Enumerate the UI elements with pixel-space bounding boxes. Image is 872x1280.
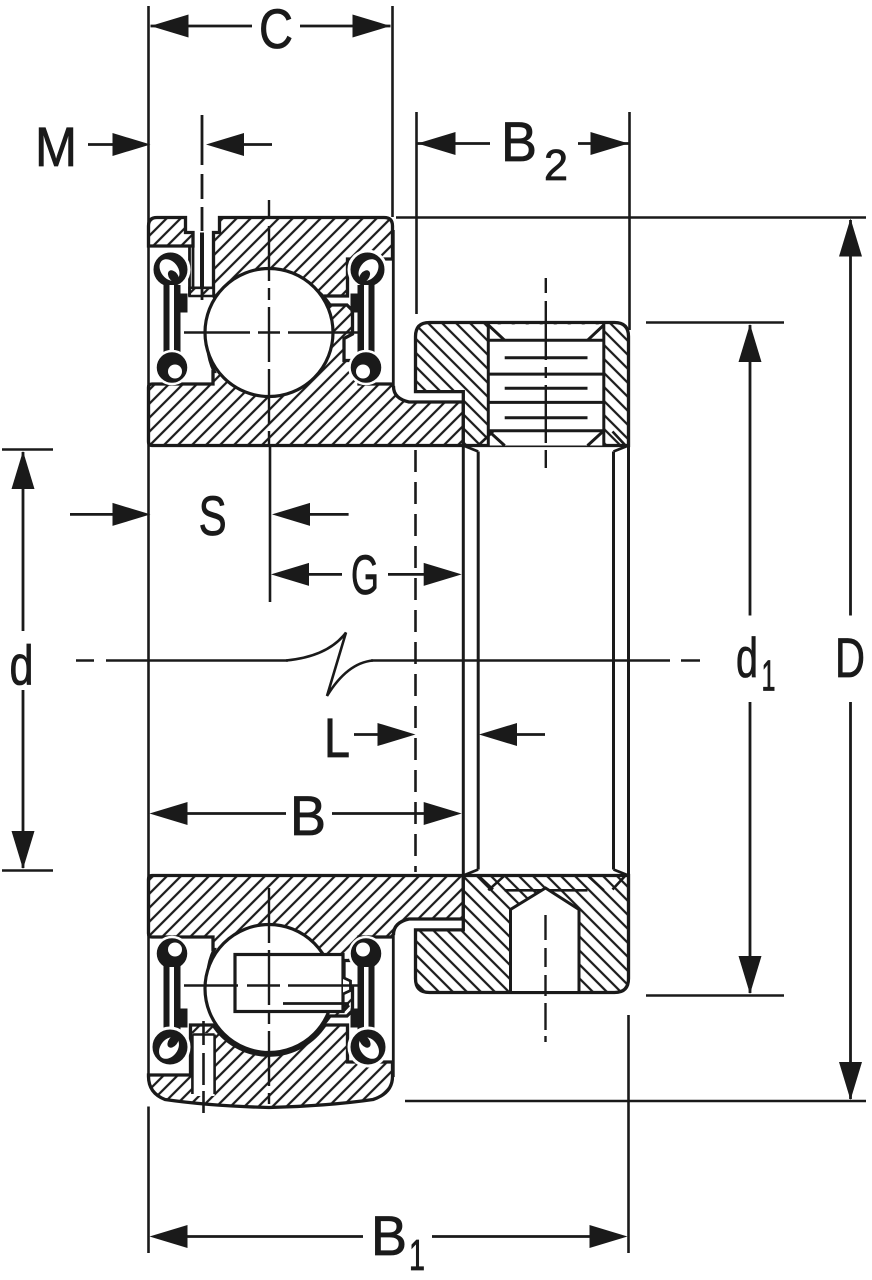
outer ring top, grease slot centerline dashes: [201, 115, 204, 300]
thread hole centerline: [545, 278, 547, 468]
outer ring top section, main lobe: [214, 218, 393, 326]
outer ring top, grease hole line in slot: [200, 233, 204, 288]
collar bottom bore chamfer marks: [478, 876, 625, 890]
seal top-left: [152, 251, 189, 384]
seal bottom-right: [349, 937, 387, 1066]
collar cylinder silhouette between halves: [463, 446, 628, 876]
inner ring right face edge line top: [392, 230, 395, 385]
ball bottom crosshair: [268, 888, 270, 1104]
collar top bore chamfer marks: [478, 432, 625, 446]
cylinder end chamfers: [463, 446, 628, 876]
dim B1: [150, 1204, 628, 1280]
ball top: [205, 269, 333, 397]
S G extension line: [269, 446, 272, 602]
collar top section: [416, 323, 629, 446]
outer ring top, strip below slot floor: [190, 288, 214, 296]
setscrew in bottom collar: [488, 875, 604, 1042]
ball bottom: [205, 925, 333, 1053]
dim B1 extension lines: [149, 1015, 629, 1253]
dim D: [396, 218, 866, 1102]
seal top-right: [349, 251, 386, 384]
collar top threaded hole: [488, 323, 604, 446]
ball top crosshair: [268, 200, 270, 445]
svg-text:D: D: [835, 626, 865, 689]
dim S: [70, 484, 349, 547]
inner ring top section with extension: [149, 276, 464, 446]
axis break symbol: [286, 633, 373, 697]
svg-text:S: S: [199, 484, 227, 547]
svg-text:1: 1: [762, 652, 776, 701]
outer ring bottom section: [149, 1025, 393, 1108]
dim B: [150, 784, 462, 847]
dim G: [271, 543, 462, 606]
dashed hidden line collar left face: [414, 450, 417, 872]
svg-text:M: M: [35, 115, 77, 178]
dim C: [151, 0, 391, 60]
setscrew hole section rect in bottom inner ring: [235, 955, 351, 1012]
outer ring top section, left lip lobe: [149, 218, 194, 247]
dim B2 extension lines: [417, 112, 630, 330]
svg-text:B: B: [290, 784, 326, 847]
svg-text:G: G: [351, 543, 379, 606]
svg-text:L: L: [324, 706, 350, 769]
dim B2: [418, 110, 629, 190]
outer ring top, slot left wall lines: [190, 246, 194, 296]
svg-text:B: B: [371, 1204, 407, 1267]
svg-text:1: 1: [409, 1231, 425, 1280]
center axis line: [76, 659, 288, 662]
collar bottom section: [416, 876, 629, 993]
dim d1: [646, 323, 784, 996]
dim L: [324, 706, 545, 769]
dim M: [35, 115, 272, 178]
svg-text:B: B: [501, 110, 537, 173]
dim d: [2, 450, 53, 871]
svg-text:2: 2: [544, 141, 568, 190]
seal bottom-left: [151, 937, 189, 1066]
bottom grease slot: [192, 1021, 214, 1113]
inner ring right face edge line bottom: [392, 936, 395, 1077]
svg-text:C: C: [259, 0, 293, 60]
dim C extension lines: [149, 6, 393, 1077]
svg-text:d: d: [736, 626, 758, 689]
inner ring bottom section with extension: [149, 876, 464, 1046]
svg-text:d: d: [10, 634, 34, 697]
